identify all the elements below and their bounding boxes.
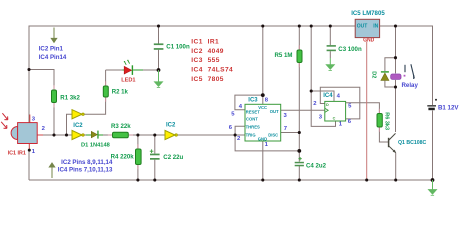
svg-text:R3 22k: R3 22k	[111, 123, 131, 130]
svg-text:IC5 LM7805: IC5 LM7805	[351, 10, 385, 17]
svg-text:OUT: OUT	[357, 23, 368, 29]
svg-text:IC3: IC3	[248, 97, 258, 103]
svg-text:C: C	[333, 117, 336, 121]
svg-text:IC2 Pins 8,9,11,14: IC2 Pins 8,9,11,14	[61, 159, 113, 166]
svg-text:IC4: IC4	[323, 93, 333, 99]
svg-text:IC1 IR1: IC1 IR1	[8, 151, 26, 157]
svg-text:R2 1k: R2 1k	[112, 89, 129, 96]
svg-text:LED1: LED1	[121, 78, 135, 84]
svg-text:C2 22u: C2 22u	[163, 154, 183, 161]
svg-text:IC1: IC1	[191, 38, 202, 45]
svg-text:Q1 BC108C: Q1 BC108C	[398, 140, 427, 146]
svg-text:C3 100n: C3 100n	[338, 46, 362, 53]
svg-text:THRES: THRES	[246, 125, 260, 130]
svg-text:IC4: IC4	[191, 67, 202, 74]
svg-text:R5 1M: R5 1M	[275, 52, 293, 59]
svg-text:IR1: IR1	[208, 38, 219, 45]
svg-text:D: D	[326, 103, 329, 107]
svg-text:IC2: IC2	[191, 48, 202, 55]
svg-text:IC2 Pin1: IC2 Pin1	[39, 46, 64, 53]
svg-text:D2: D2	[371, 71, 377, 78]
svg-text:IC2: IC2	[166, 122, 176, 128]
svg-text:TRIG: TRIG	[246, 132, 256, 137]
svg-text:IC3: IC3	[191, 57, 202, 64]
svg-text:GND: GND	[258, 136, 267, 141]
svg-text:IC4 Pin14: IC4 Pin14	[39, 54, 67, 61]
svg-text:RESET: RESET	[246, 109, 260, 114]
svg-text:IC5: IC5	[191, 76, 202, 83]
svg-text:7805: 7805	[208, 76, 224, 83]
svg-text:IC4 Pins 7,10,11,13: IC4 Pins 7,10,11,13	[58, 166, 113, 173]
svg-text:IC2: IC2	[73, 123, 83, 129]
svg-text:IN: IN	[373, 23, 378, 29]
svg-text:R6 3k3: R6 3k3	[384, 112, 390, 130]
svg-text:C1 100n: C1 100n	[166, 43, 190, 50]
svg-text:C4 2u2: C4 2u2	[306, 163, 327, 170]
svg-text:74LS74: 74LS74	[208, 67, 234, 74]
svg-text:Relay: Relay	[402, 82, 419, 89]
svg-text:GND: GND	[363, 38, 375, 44]
svg-text:R4 220k: R4 220k	[111, 153, 135, 160]
svg-text:OUT: OUT	[270, 109, 279, 114]
svg-text:4049: 4049	[208, 48, 224, 55]
svg-text:CONT: CONT	[246, 117, 258, 122]
svg-text:DISC: DISC	[268, 132, 278, 137]
svg-text:D1 1N4148: D1 1N4148	[81, 143, 110, 149]
svg-text:R1 3k2: R1 3k2	[60, 94, 80, 101]
svg-text:B1 12V: B1 12V	[438, 104, 459, 111]
svg-text:555: 555	[208, 57, 220, 64]
